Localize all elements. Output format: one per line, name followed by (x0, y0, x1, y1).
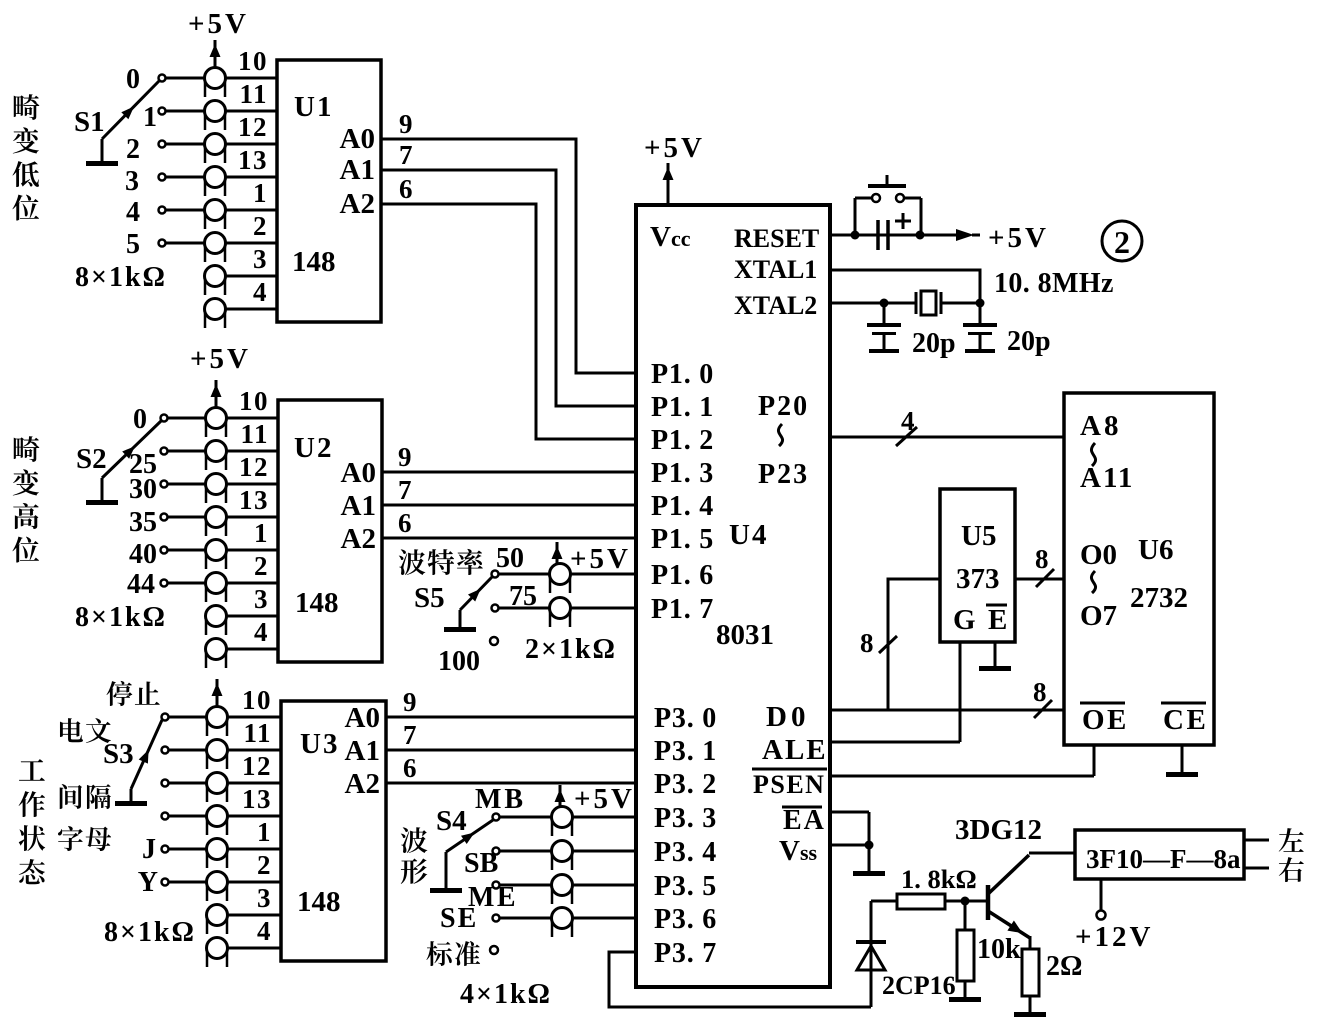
svg-text:P1. 5: P1. 5 (651, 524, 714, 555)
svg-text:MB: MB (475, 784, 526, 815)
svg-text:P1. 2: P1. 2 (651, 425, 714, 456)
svg-text:U3: U3 (300, 728, 339, 760)
svg-text:+5V: +5V (988, 222, 1049, 254)
svg-text:148: 148 (295, 587, 339, 619)
svg-text:A0: A0 (345, 702, 380, 734)
svg-text:11: 11 (240, 419, 269, 449)
svg-text:G: G (953, 604, 976, 636)
svg-text:XTAL1: XTAL1 (734, 255, 817, 284)
svg-text:6: 6 (398, 508, 412, 538)
svg-text:6: 6 (399, 174, 413, 204)
svg-text:1: 1 (253, 178, 268, 208)
svg-text:6: 6 (403, 753, 417, 783)
svg-text:2×1kΩ: 2×1kΩ (525, 634, 617, 665)
svg-text:10. 8MHz: 10. 8MHz (994, 268, 1114, 299)
svg-text:O7: O7 (1080, 600, 1117, 632)
svg-text:U4: U4 (729, 519, 768, 551)
svg-text:S5: S5 (414, 582, 445, 614)
svg-text:3: 3 (254, 584, 269, 614)
svg-text:3F10—F—8a: 3F10—F—8a (1086, 844, 1241, 874)
svg-text:13: 13 (239, 485, 269, 515)
svg-text:4: 4 (257, 916, 272, 946)
svg-text:U1: U1 (294, 91, 333, 123)
svg-text:44: 44 (127, 569, 155, 600)
svg-text:S2: S2 (76, 443, 107, 475)
svg-text:12: 12 (238, 112, 268, 142)
svg-text:12: 12 (239, 452, 269, 482)
svg-text:3DG12: 3DG12 (955, 814, 1042, 846)
svg-text:XTAL2: XTAL2 (734, 291, 817, 320)
svg-text:U5: U5 (961, 520, 996, 552)
svg-text:4: 4 (126, 197, 140, 228)
svg-text:20p: 20p (912, 328, 956, 359)
svg-text:2732: 2732 (1130, 582, 1188, 614)
svg-text:9: 9 (403, 687, 417, 717)
svg-text:4: 4 (253, 277, 268, 307)
svg-text:8×1kΩ: 8×1kΩ (104, 917, 196, 948)
svg-text:148: 148 (292, 246, 336, 278)
svg-text:S1: S1 (74, 106, 105, 138)
svg-text:8: 8 (1033, 677, 1047, 707)
svg-text:PSEN: PSEN (753, 770, 825, 799)
svg-text:40: 40 (129, 539, 157, 570)
svg-text:35: 35 (129, 507, 157, 538)
svg-text:10k: 10k (977, 934, 1021, 965)
svg-text:11: 11 (239, 79, 268, 109)
svg-text:1: 1 (143, 102, 157, 133)
svg-text:9: 9 (399, 109, 413, 139)
svg-text:A1: A1 (341, 490, 376, 522)
svg-text:3: 3 (257, 883, 272, 913)
svg-text:148: 148 (297, 886, 341, 918)
svg-text:A2: A2 (341, 523, 376, 555)
svg-text:EA: EA (783, 805, 826, 836)
svg-text:20p: 20p (1007, 326, 1051, 357)
svg-text:P1. 7: P1. 7 (651, 594, 714, 625)
svg-text:ALE: ALE (762, 734, 828, 766)
svg-text:OE: OE (1082, 704, 1129, 736)
svg-text:+5V: +5V (570, 543, 631, 575)
svg-text:P1. 0: P1. 0 (651, 359, 714, 390)
svg-text:0: 0 (133, 404, 147, 435)
svg-text:E: E (988, 604, 1007, 636)
svg-text:10: 10 (242, 685, 272, 715)
svg-text:2CP16: 2CP16 (882, 971, 956, 1000)
svg-text:+5V: +5V (190, 343, 251, 375)
svg-text:P1. 1: P1. 1 (651, 392, 714, 423)
svg-text:3: 3 (253, 244, 268, 274)
svg-text:7: 7 (403, 720, 417, 750)
svg-text:+12V: +12V (1075, 921, 1153, 953)
svg-text:A0: A0 (340, 123, 375, 155)
svg-text:2Ω: 2Ω (1046, 951, 1082, 982)
svg-text:A11: A11 (1080, 462, 1134, 494)
svg-text:P3. 5: P3. 5 (654, 871, 717, 902)
svg-text:1: 1 (254, 518, 269, 548)
svg-text:U6: U6 (1138, 534, 1173, 566)
svg-text:A0: A0 (341, 457, 376, 489)
svg-text:100: 100 (438, 646, 480, 677)
svg-text:373: 373 (956, 563, 1000, 595)
svg-text:A2: A2 (340, 188, 375, 220)
svg-text:RESET: RESET (734, 224, 819, 253)
svg-text:A1: A1 (340, 154, 375, 186)
svg-text:CE: CE (1163, 704, 1208, 736)
svg-text:0: 0 (126, 64, 140, 95)
svg-text:8: 8 (1035, 544, 1049, 574)
svg-text:9: 9 (398, 442, 412, 472)
svg-text:4×1kΩ: 4×1kΩ (460, 979, 552, 1010)
svg-text:11: 11 (243, 718, 272, 748)
svg-text:Y: Y (138, 867, 158, 898)
svg-text:3: 3 (125, 166, 139, 197)
svg-text:P3. 3: P3. 3 (654, 803, 717, 834)
svg-text:A2: A2 (345, 768, 380, 800)
svg-text:30: 30 (129, 474, 157, 505)
svg-text:A1: A1 (345, 735, 380, 767)
svg-text:P23: P23 (758, 459, 809, 490)
svg-text:12: 12 (242, 751, 272, 781)
svg-text:+5V: +5V (188, 8, 249, 40)
svg-text:4: 4 (254, 617, 269, 647)
svg-text:P3. 2: P3. 2 (654, 769, 717, 800)
svg-text:P3. 4: P3. 4 (654, 837, 717, 868)
svg-text:D0: D0 (766, 701, 809, 733)
svg-text:P3. 6: P3. 6 (654, 904, 717, 935)
svg-text:2: 2 (254, 551, 269, 581)
svg-text:50: 50 (496, 543, 524, 574)
svg-text:O0: O0 (1080, 539, 1117, 571)
svg-text:10: 10 (239, 386, 269, 416)
svg-text:+5V: +5V (574, 783, 635, 815)
svg-text:2: 2 (257, 850, 272, 880)
svg-text:8: 8 (860, 628, 874, 658)
svg-text:J: J (142, 834, 156, 865)
svg-text:P1. 3: P1. 3 (651, 458, 714, 489)
svg-text:7: 7 (399, 140, 413, 170)
svg-text:P3. 1: P3. 1 (654, 736, 717, 767)
svg-text:+5V: +5V (644, 132, 705, 164)
svg-text:2: 2 (1114, 224, 1130, 260)
svg-text:Vcc: Vcc (650, 221, 691, 253)
svg-text:5: 5 (126, 229, 140, 260)
svg-text:A8: A8 (1080, 410, 1121, 442)
svg-text:8×1kΩ: 8×1kΩ (75, 602, 167, 633)
svg-text:P3. 7: P3. 7 (654, 938, 717, 969)
svg-text:10: 10 (238, 46, 268, 76)
svg-text:2: 2 (126, 134, 140, 165)
svg-text:8031: 8031 (716, 619, 774, 651)
svg-text:8×1kΩ: 8×1kΩ (75, 262, 167, 293)
svg-text:P1. 4: P1. 4 (651, 491, 714, 522)
svg-text:1: 1 (257, 817, 272, 847)
svg-text:S4: S4 (436, 805, 467, 837)
svg-text:P3. 0: P3. 0 (654, 703, 717, 734)
svg-text:P20: P20 (758, 391, 809, 422)
svg-text:7: 7 (398, 475, 412, 505)
svg-text:13: 13 (238, 145, 268, 175)
svg-text:4: 4 (901, 406, 915, 436)
svg-text:13: 13 (242, 784, 272, 814)
svg-text:Vss: Vss (779, 835, 818, 867)
svg-text:2: 2 (253, 211, 268, 241)
svg-text:U2: U2 (294, 432, 333, 464)
svg-text:1. 8kΩ: 1. 8kΩ (901, 864, 977, 894)
svg-text:SE: SE (440, 903, 478, 934)
svg-text:P1. 6: P1. 6 (651, 560, 714, 591)
